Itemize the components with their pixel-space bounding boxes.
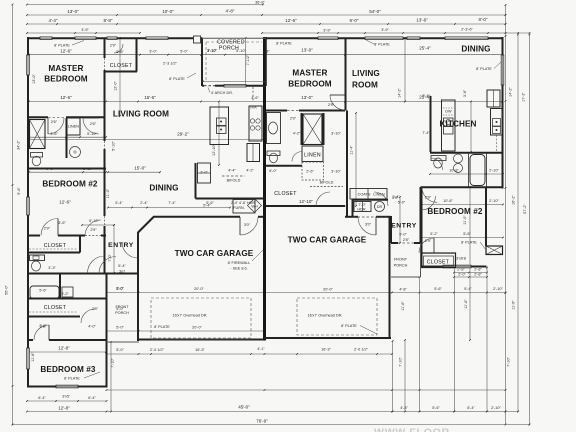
svg-text:5'-4": 5'-4" [118, 264, 126, 268]
right garage east wall [389, 216, 391, 339]
right garage north wall [345, 216, 358, 218]
svg-text:2'9": 2'9" [425, 239, 432, 243]
right garage south wall [264, 337, 391, 339]
garage bottom dim row y354 (5'-0 / 2'-0 1/2 / 16'-3 / 4'-1 / 16'-3 / 2'-0 1/2) [107, 353, 393, 355]
window master top 2 [40, 36, 52, 40]
svg-text:3'x5': 3'x5' [62, 395, 70, 399]
porch interior dim [203, 81, 265, 83]
svg-text:12'-8": 12'-8" [58, 406, 70, 411]
interior dim row y137 left bath (3'-6 / 5'-10) [29, 136, 106, 138]
laundry bifold dashed [353, 216, 387, 218]
svg-text:CLOSET: CLOSET [44, 305, 67, 311]
right hall wall x347 [346, 111, 348, 218]
svg-text:BEDROOM #3: BEDROOM #3 [40, 365, 95, 374]
right kitchen counter lower dashed [496, 135, 498, 151]
svg-text:8' FIREWALL: 8' FIREWALL [228, 261, 251, 265]
svg-text:3'-10": 3'-10" [331, 170, 341, 174]
svg-text:15'-6": 15'-6" [144, 95, 156, 100]
svg-text:45'-0": 45'-0" [238, 405, 250, 410]
garage north wall [153, 216, 240, 218]
window dining east [501, 55, 505, 85]
wardrobe side walls [301, 113, 303, 145]
svg-text:5'-6": 5'-6" [432, 406, 440, 410]
svg-text:LIVING: LIVING [352, 69, 380, 78]
bottom dimension row y390 [107, 389, 506, 391]
svg-text:8' PLATE: 8' PLATE [64, 377, 80, 381]
svg-text:WWW.FLOOR: WWW.FLOOR [374, 427, 450, 432]
svg-text:12'-0": 12'-0" [114, 81, 118, 91]
covered porch south wall [215, 85, 224, 87]
svg-text:2'-8": 2'-8" [474, 267, 482, 271]
right bedroom2 dim rows [421, 204, 503, 206]
svg-text:20'-0": 20'-0" [323, 288, 333, 292]
svg-text:8' PLATE: 8' PLATE [154, 325, 170, 329]
svg-text:2'-0": 2'-0" [200, 171, 208, 175]
svg-text:FRONT: FRONT [115, 305, 129, 309]
svg-text:5'-4": 5'-4" [467, 406, 475, 410]
window bedroom2 south [443, 265, 471, 269]
svg-text:16'-2": 16'-2" [512, 195, 516, 205]
svg-text:CLOSET: CLOSET [427, 260, 450, 266]
svg-text:2'9": 2'9" [110, 44, 117, 48]
svg-text:7'-0": 7'-0" [358, 203, 366, 207]
svg-text:16'-3": 16'-3" [195, 348, 205, 352]
entry-left vertical dim 7'-0 [113, 225, 115, 273]
svg-text:COATS: COATS [358, 193, 371, 197]
svg-text:8' PLATE: 8' PLATE [169, 77, 185, 81]
entry/porch wall y273 [100, 273, 139, 275]
right bath tub [470, 155, 485, 186]
svg-text:2'9": 2'9" [92, 307, 99, 311]
svg-text:TWO CAR GARAGE: TWO CAR GARAGE [288, 236, 367, 245]
coats/linen closets near entry [350, 189, 387, 200]
svg-text:5'-2": 5'-2" [430, 232, 438, 236]
svg-text:3'-9": 3'-9" [381, 28, 389, 32]
left exterior wall [27, 37, 29, 388]
right hall wall y187-206 [266, 205, 345, 207]
left bath door arc [48, 118, 64, 134]
svg-text:TWO CAR GARAGE: TWO CAR GARAGE [175, 249, 254, 258]
left hall closets [198, 163, 211, 183]
svg-text:3'-6": 3'-6" [58, 221, 66, 225]
svg-text:5'-0": 5'-0" [180, 50, 188, 54]
svg-text:2'-4": 2'-4" [140, 201, 148, 205]
interior dim row y172 (15'-0 / bath dims) [29, 171, 106, 173]
svg-text:2'-10": 2'-10" [493, 287, 503, 291]
right unit east wall [502, 37, 504, 189]
svg-text:2'-10": 2'-10" [489, 169, 499, 173]
svg-text:9'-0": 9'-0" [350, 18, 359, 23]
covered porch dashed outline [206, 41, 262, 43]
front door dashed below porch wall [252, 87, 254, 102]
left hall x106 wall lower [104, 169, 106, 217]
svg-text:7'-10": 7'-10" [507, 357, 511, 367]
top dimension row 2 (13'-0 / 10'-0 / 4'-8 / 54'-0) [27, 14, 506, 16]
svg-text:3'-6": 3'-6" [463, 89, 467, 97]
garage south wall [138, 339, 265, 341]
svg-text:5'-6": 5'-6" [434, 287, 442, 291]
svg-text:4'-8": 4'-8" [226, 9, 235, 14]
window dining top [445, 36, 488, 40]
bath2 south wall [27, 273, 106, 275]
svg-text:DW: DW [445, 110, 452, 114]
svg-text:3'-10": 3'-10" [207, 49, 217, 53]
left closet east wall [136, 38, 138, 72]
left garage door sill [151, 339, 251, 341]
svg-text:12'-10": 12'-10" [299, 199, 313, 204]
svg-text:20'-0": 20'-0" [192, 326, 202, 330]
porch arch dashes [204, 85, 215, 87]
svg-text:BEDROOM #2: BEDROOM #2 [427, 207, 482, 216]
bottom dimension row 76'-9 [13, 424, 530, 426]
svg-text:2'9": 2'9" [425, 196, 432, 200]
svg-text:5'-4": 5'-4" [464, 287, 472, 291]
svg-text:LIVING ROOM: LIVING ROOM [113, 110, 169, 119]
svg-text:8'-8": 8'-8" [104, 18, 113, 23]
svg-text:PORCH: PORCH [219, 46, 239, 52]
right dim row y273 (2'-8 2'-8) [454, 272, 487, 274]
right master wardrobe xbox [303, 114, 322, 145]
window closet top [107, 36, 117, 40]
left closet door [114, 44, 123, 53]
svg-text:55'-0": 55'-0" [5, 285, 9, 295]
svg-text:12'-6": 12'-6" [285, 18, 297, 23]
svg-text:7'-4": 7'-4" [422, 94, 430, 98]
svg-text:LINEN: LINEN [373, 193, 384, 197]
svg-text:5'-0": 5'-0" [398, 201, 406, 205]
window bedroom3 bottom [56, 385, 78, 389]
svg-text:1'3": 1'3" [392, 196, 399, 200]
svg-text:9'-6": 9'-6" [17, 187, 21, 195]
master right wall x345 [345, 38, 347, 111]
interior dim row y54 (12'-6 / 3'-0 / 5'-0 / 3'-10 / 5'-10 / 13'-0 / 25'-4) [29, 54, 502, 56]
svg-text:3'0": 3'0" [244, 223, 251, 227]
svg-text:LINEN: LINEN [68, 125, 79, 129]
right closet box [422, 253, 456, 268]
kitchen/bath wall y152 [430, 152, 504, 154]
right kitchen counter + stove [491, 109, 503, 136]
interior dim row y101 (12'-6 / 15'-6 / 13'-0 / 25'-4) [29, 101, 502, 103]
left kitchen fridge [247, 144, 260, 162]
right bath fixtures [431, 156, 446, 161]
garage entry door arc [240, 217, 258, 235]
kitchen west wall [430, 96, 432, 152]
window left bedroom2 [26, 197, 30, 215]
svg-text:4'-6": 4'-6" [251, 96, 259, 100]
hall door arc near porch [88, 256, 105, 273]
right unit master bedroom south wall [266, 110, 287, 112]
svg-text:ENTRY: ENTRY [391, 223, 417, 230]
svg-text:2'-10": 2'-10" [491, 406, 501, 410]
svg-text:5'-0": 5'-0" [399, 233, 407, 237]
svg-text:DINING: DINING [461, 45, 490, 54]
left dimension column 34'-2 / 55'-0 [12, 5, 14, 425]
svg-text:6'-0": 6'-0" [269, 169, 277, 173]
svg-text:ROOM: ROOM [352, 81, 378, 90]
svg-text:3'-9": 3'-9" [323, 29, 331, 33]
porch front edge [107, 341, 140, 343]
svg-text:11'-6": 11'-6" [464, 299, 468, 309]
right entry south wall + door [391, 242, 398, 244]
closet2 walls [27, 298, 106, 300]
right kitchen island [442, 100, 456, 151]
svg-text:BEDROOM: BEDROOM [44, 75, 88, 84]
svg-text:- SEE 8.6.: - SEE 8.6. [230, 267, 247, 271]
top dimension row 4 (window dims) [27, 32, 140, 34]
bedroom2 door arc [41, 219, 58, 236]
svg-text:4'-8": 4'-8" [399, 288, 407, 292]
right mini dim row y277 (2'-0 / 2'-8) [454, 276, 487, 278]
svg-text:5'-0": 5'-0" [116, 287, 124, 291]
closet2-bed3 hall door [81, 309, 95, 323]
wc sink [62, 287, 73, 297]
svg-text:2'9": 2'9" [328, 103, 335, 107]
svg-text:CLOSET: CLOSET [274, 191, 297, 197]
svg-text:5'-6": 5'-6" [116, 50, 124, 54]
svg-text:20'-0": 20'-0" [194, 287, 204, 291]
svg-text:6'-4": 6'-4" [38, 396, 46, 400]
svg-text:BIFOLD: BIFOLD [320, 181, 334, 185]
right bath door arcs [431, 158, 443, 170]
svg-text:11'-6": 11'-6" [512, 300, 516, 310]
right bedroom2 west wall [421, 187, 423, 268]
left hall door arc (master) [83, 118, 99, 134]
covered porch east wall / right unit west wall [265, 37, 267, 86]
svg-text:2'-10": 2'-10" [489, 199, 499, 203]
outer top dimension line 36'-8" [27, 4, 263, 6]
firewall between garages [263, 37, 266, 341]
svg-text:3'-3": 3'-3" [48, 266, 56, 270]
right master door arc [330, 95, 345, 110]
left bath toilet [31, 153, 43, 158]
svg-text:2'-8": 2'-8" [474, 272, 482, 276]
vertical interior dims [119, 38, 121, 116]
svg-text:4'-2": 4'-2" [293, 132, 301, 136]
bottom dimension row y411 (12'-8 / 45'-0 / 4'-8 / 5'-6 / 5'-4 / 2'-10) [27, 411, 518, 413]
bedroom2 hall-side door arc [85, 220, 101, 236]
left bath south wall [27, 168, 106, 170]
window left master [26, 55, 30, 75]
svg-text:7'-4": 7'-4" [168, 201, 176, 205]
svg-text:16'x7' Overhead DR.: 16'x7' Overhead DR. [307, 314, 342, 318]
left hall wall y198 x195-228 [195, 163, 197, 199]
svg-text:11'-8": 11'-8" [31, 352, 35, 362]
svg-text:4'-4": 4'-4" [49, 18, 58, 23]
bath south wall y187 [421, 186, 504, 188]
svg-text:PORCH: PORCH [115, 311, 129, 315]
hall east wall x104 dashed opening [104, 118, 106, 142]
svg-text:34'-2": 34'-2" [17, 140, 21, 150]
svg-text:7'-10": 7'-10" [399, 357, 403, 367]
svg-text:12'-8": 12'-8" [58, 346, 70, 351]
svg-text:12'-6": 12'-6" [59, 200, 71, 205]
svg-text:13'-0": 13'-0" [301, 48, 313, 53]
garage west wall [137, 232, 139, 341]
bedroom3 door arc [34, 325, 49, 340]
left entry door arc [99, 257, 116, 274]
svg-text:R/A: R/A [250, 106, 257, 110]
bedroom2 door arc [419, 238, 434, 253]
svg-text:2'-0 1/2": 2'-0 1/2" [354, 348, 369, 352]
svg-text:17'-2": 17'-2" [522, 92, 526, 102]
svg-text:8' PLATE: 8' PLATE [374, 43, 390, 47]
left bath shower xbox [30, 120, 46, 149]
smoke det box on wall [194, 36, 201, 43]
furnace closet [228, 198, 265, 200]
svg-text:BEDROOM: BEDROOM [288, 80, 332, 89]
svg-text:8' PLATE: 8' PLATE [54, 44, 70, 48]
svg-text:5'-6": 5'-6" [206, 201, 214, 205]
right garage door arc [358, 217, 376, 235]
window living top [146, 36, 168, 40]
svg-text:FURN.: FURN. [233, 206, 245, 210]
left unit: master/closet wall x104 [104, 38, 106, 58]
right garage overhead door dashed [297, 298, 377, 335]
svg-text:2'9": 2'9" [290, 116, 297, 120]
right porch east edge [420, 243, 422, 277]
right unit top wall [266, 37, 504, 39]
svg-text:4'-4": 4'-4" [228, 169, 236, 173]
svg-text:13'-6": 13'-6" [416, 18, 428, 23]
svg-text:10'-8": 10'-8" [443, 199, 453, 203]
svg-text:7'-1/2": 7'-1/2" [246, 54, 250, 65]
left bedroom2 south wall segs [27, 235, 40, 237]
svg-text:8' PLATE: 8' PLATE [461, 241, 477, 245]
svg-text:FRONT: FRONT [394, 258, 408, 262]
svg-text:CLOSET: CLOSET [110, 63, 133, 69]
bath2 vanity [30, 255, 45, 261]
svg-text:11'-0": 11'-0" [106, 188, 110, 198]
svg-text:4'-8": 4'-8" [400, 406, 408, 410]
svg-text:ENTRY: ENTRY [108, 242, 134, 249]
right hall south wall [266, 165, 302, 167]
svg-text:3'x6'8: 3'x6'8 [456, 257, 466, 261]
bedroom3 bottom wall [27, 386, 108, 388]
right bath toilet [267, 151, 280, 156]
tub divider wall [59, 274, 61, 299]
svg-text:WH: WH [251, 205, 258, 209]
svg-text:BIFOLD: BIFOLD [227, 179, 241, 183]
svg-text:25'-4": 25'-4" [419, 46, 431, 51]
svg-text:5'-10": 5'-10" [89, 219, 99, 223]
left kitchen counter + stove [249, 106, 262, 141]
svg-text:2'-6": 2'-6" [306, 170, 314, 174]
svg-text:76'-9": 76'-9" [256, 419, 268, 424]
svg-text:2'-0' 4'-6' HDR: 2'-0' 4'-6' HDR [231, 201, 255, 205]
svg-text:13'-0": 13'-0" [301, 95, 313, 100]
interior dim row y203-207 left (11'-0 / 5'-4 / 2'-4 / 7'-4 / 5'-4) [108, 207, 230, 209]
svg-text:3'-2": 3'-2" [61, 292, 69, 296]
svg-text:14'-2": 14'-2" [398, 88, 402, 98]
svg-text:DINING: DINING [149, 184, 178, 193]
svg-text:8'-0": 8'-0" [479, 17, 488, 22]
closet1 box [27, 252, 80, 254]
svg-text:3'-0": 3'-0" [149, 50, 157, 54]
svg-text:HDR.: HDR. [357, 208, 366, 212]
right bedroom2 door arc top [422, 187, 437, 202]
bottom dimension row bedroom3 (6'-4 / 3x5 / 6'-4) [27, 400, 107, 402]
svg-text:10'-0": 10'-0" [162, 9, 174, 14]
svg-text:12'-10": 12'-10" [212, 143, 216, 155]
svg-text:2'9": 2'9" [40, 325, 47, 329]
svg-text:36'-8": 36'-8" [255, 1, 265, 5]
svg-text:6'-4": 6'-4" [88, 396, 96, 400]
right entry east wall [420, 187, 422, 243]
window right living top [365, 36, 403, 40]
svg-text:MASTER: MASTER [292, 69, 327, 78]
toilet room door arc [292, 152, 302, 162]
tub room [30, 286, 59, 299]
svg-text:2'9": 2'9" [90, 228, 97, 232]
svg-text:7'-10": 7'-10" [111, 358, 115, 368]
svg-text:8' PLATE: 8' PLATE [476, 67, 492, 71]
porch top edge line [202, 37, 266, 39]
right unit bath west vanity [267, 113, 281, 144]
svg-text:LINEN: LINEN [304, 153, 321, 159]
svg-text:8' PLATE: 8' PLATE [341, 324, 357, 328]
svg-text:11'-0": 11'-0" [463, 215, 467, 225]
left bath round sink [70, 147, 81, 158]
svg-text:16'-3": 16'-3" [321, 348, 331, 352]
washer dryer [354, 202, 371, 212]
svg-text:BEDROOM #2: BEDROOM #2 [42, 180, 97, 189]
svg-text:2'6": 2'6" [90, 122, 97, 126]
svg-text:13'-0": 13'-0" [32, 74, 36, 84]
svg-text:4'-2": 4'-2" [246, 169, 254, 173]
svg-text:MASTER: MASTER [48, 64, 83, 73]
svg-text:29'-2": 29'-2" [177, 132, 189, 137]
svg-text:DR: DR [377, 205, 383, 209]
porch south window [224, 84, 246, 88]
right bath dims 10'-8 2'-10 [430, 173, 503, 175]
right linen box [302, 146, 323, 162]
right bedroom2 bay window [486, 246, 503, 255]
bedroom3 top wall [27, 339, 33, 341]
svg-text:3'0": 3'0" [365, 223, 372, 227]
svg-text:12'-6": 12'-6" [60, 49, 72, 54]
svg-text:5'-0": 5'-0" [116, 348, 124, 352]
bottom-right vertical dim lines [392, 341, 394, 412]
right kitchen fridge [487, 90, 500, 107]
left unit exterior top wall [27, 37, 203, 39]
svg-text:5'-0": 5'-0" [116, 326, 124, 330]
svg-text:57'-2": 57'-2" [523, 204, 527, 214]
right bedroom2 east wall [485, 187, 487, 246]
svg-text:15'-0": 15'-0" [134, 166, 146, 171]
svg-text:4'-1": 4'-1" [257, 347, 265, 351]
svg-text:54'-0": 54'-0" [369, 9, 381, 14]
svg-text:8' PLATE: 8' PLATE [276, 42, 292, 46]
entry top dim line [82, 224, 114, 226]
cased opening dining [407, 36, 420, 40]
left garage overhead door dashed [151, 298, 251, 338]
window master top [75, 36, 96, 40]
window right master top [318, 36, 338, 40]
svg-text:5'-10": 5'-10" [112, 141, 116, 151]
svg-text:13'-0": 13'-0" [67, 9, 79, 14]
left linen [67, 118, 81, 135]
svg-text:CLOSET: CLOSET [44, 243, 67, 249]
svg-text:2'9": 2'9" [44, 227, 51, 231]
svg-text:14'-2": 14'-2" [509, 87, 513, 97]
svg-text:2'-0 1/2": 2'-0 1/2" [150, 348, 165, 352]
top dimension row 3 (4'-4 / 8'-8 / 12'-6 / 9'-0 / 13'-6 / 8'-0) [27, 23, 506, 25]
covered porch west wall [201, 38, 203, 86]
interior dim row y139 (29'-2) [29, 139, 264, 141]
svg-text:11'-4": 11'-4" [350, 145, 354, 155]
right bedroom2 south wall [421, 266, 487, 268]
svg-text:12'-6": 12'-6" [60, 95, 72, 100]
